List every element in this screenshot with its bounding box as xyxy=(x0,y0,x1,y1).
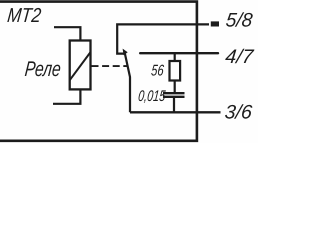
capacitor C1 lead bottom xyxy=(173,97,175,112)
blade arrowhead xyxy=(123,49,128,56)
border frame of relay body (top, right, bottom) xyxy=(0,2,197,141)
resistor R1 xyxy=(170,61,181,81)
svg-text:Реле: Реле xyxy=(24,57,62,81)
svg-text:МТ2: МТ2 xyxy=(6,5,42,27)
wire terminal 3/6 xyxy=(130,111,221,113)
svg-text:5/8: 5/8 xyxy=(225,9,254,31)
dashed mechanical link coil-to-contact xyxy=(92,65,128,67)
wire from coil bottom to open end left xyxy=(53,89,80,103)
capacitor C1 top plate xyxy=(163,92,185,94)
svg-text:3/6: 3/6 xyxy=(224,102,253,124)
svg-text:4/7: 4/7 xyxy=(224,46,255,68)
resistor R1 lead bottom xyxy=(174,81,176,94)
wire terminal 5/8 with fixed contact post xyxy=(117,24,209,53)
resistor R1 lead top xyxy=(174,53,176,61)
coil diagonal stripe xyxy=(70,52,91,80)
wire terminal 4/7 xyxy=(140,52,218,54)
wire from coil top to open end left xyxy=(54,27,80,40)
relay coil K1 (Реле) xyxy=(70,41,91,90)
svg-text:0,015: 0,015 xyxy=(137,88,166,105)
movable contact blade xyxy=(125,52,130,112)
terminal plug mark 5/8 xyxy=(211,21,219,26)
capacitor C1 bottom plate xyxy=(163,96,185,98)
svg-text:56: 56 xyxy=(150,63,164,80)
